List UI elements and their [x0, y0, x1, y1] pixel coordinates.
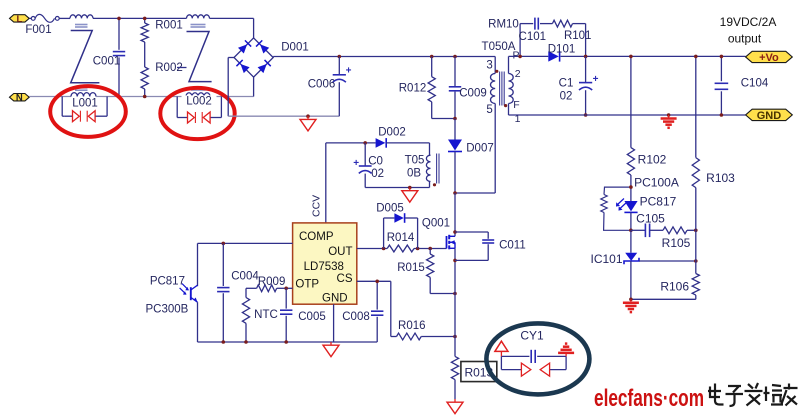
svg-text:R012: R012 [399, 83, 427, 95]
svg-text:D001: D001 [281, 42, 309, 54]
svg-text:+: + [353, 158, 359, 169]
svg-text:L: L [16, 14, 22, 25]
svg-text:C0: C0 [368, 156, 383, 168]
svg-text:OTP: OTP [295, 279, 319, 291]
svg-text:L002: L002 [186, 96, 212, 108]
svg-text:2: 2 [515, 68, 521, 80]
svg-text:elecfans·com: elecfans·com [594, 385, 704, 412]
svg-text:C001: C001 [93, 56, 121, 68]
svg-text:0B: 0B [407, 168, 421, 180]
svg-text:+: + [593, 74, 599, 85]
svg-text:R016: R016 [398, 320, 426, 332]
svg-text:CY1: CY1 [520, 329, 544, 343]
svg-text:C104: C104 [741, 78, 769, 90]
svg-text:RM10: RM10 [488, 18, 519, 30]
svg-text:PC100A: PC100A [634, 176, 679, 190]
svg-text:OUT: OUT [328, 246, 352, 258]
svg-text:R101: R101 [564, 30, 592, 42]
svg-text:CS: CS [337, 273, 353, 285]
svg-text:02: 02 [371, 168, 384, 180]
svg-text:D101: D101 [548, 43, 576, 55]
svg-text:F: F [513, 99, 519, 111]
svg-text:C004: C004 [231, 270, 259, 282]
svg-text:IC101: IC101 [590, 252, 622, 266]
svg-text:C008: C008 [342, 311, 370, 323]
svg-text:C011: C011 [499, 239, 526, 251]
svg-text:3: 3 [486, 59, 492, 71]
svg-text:NTC: NTC [254, 309, 278, 321]
svg-text:PC817: PC817 [640, 195, 677, 209]
svg-text:R106: R106 [660, 280, 689, 294]
svg-text:19VDC/2A: 19VDC/2A [720, 15, 777, 29]
svg-text:+: + [346, 66, 352, 77]
svg-text:output: output [728, 32, 762, 46]
svg-text:P: P [513, 50, 520, 62]
svg-text:D007: D007 [466, 143, 494, 155]
svg-text:CCV: CCV [310, 195, 322, 217]
svg-text:F001: F001 [25, 24, 51, 36]
svg-text:T05: T05 [405, 155, 425, 167]
svg-text:R002: R002 [155, 62, 183, 74]
svg-text:R015: R015 [397, 262, 425, 274]
svg-text:D005: D005 [376, 202, 404, 214]
svg-text:C1: C1 [559, 78, 574, 90]
svg-text:C009: C009 [459, 88, 487, 100]
svg-text:PC300B: PC300B [145, 303, 188, 315]
svg-text:R001: R001 [155, 20, 183, 32]
svg-text:GND: GND [757, 110, 782, 122]
svg-text:C005: C005 [298, 311, 326, 323]
svg-text:5: 5 [486, 104, 492, 116]
svg-text:+Vo: +Vo [759, 52, 779, 64]
svg-text:R103: R103 [706, 171, 735, 185]
svg-text:N: N [16, 93, 23, 104]
svg-text:02: 02 [560, 91, 573, 103]
svg-text:C006: C006 [308, 79, 336, 91]
svg-text:L001: L001 [72, 98, 98, 110]
svg-text:D002: D002 [378, 126, 406, 138]
svg-text:C101: C101 [519, 31, 547, 43]
svg-text:R009: R009 [258, 276, 286, 288]
svg-text:GND: GND [322, 292, 348, 304]
svg-text:R014: R014 [387, 232, 415, 244]
svg-text:R102: R102 [638, 153, 667, 167]
svg-text:LD7538: LD7538 [304, 261, 344, 273]
svg-text:T050A: T050A [482, 41, 516, 53]
svg-text:Q001: Q001 [422, 218, 450, 230]
svg-text:C105: C105 [636, 212, 665, 226]
svg-text:R105: R105 [662, 236, 691, 250]
svg-text:PC817: PC817 [150, 276, 185, 288]
svg-text:COMP: COMP [299, 231, 334, 243]
